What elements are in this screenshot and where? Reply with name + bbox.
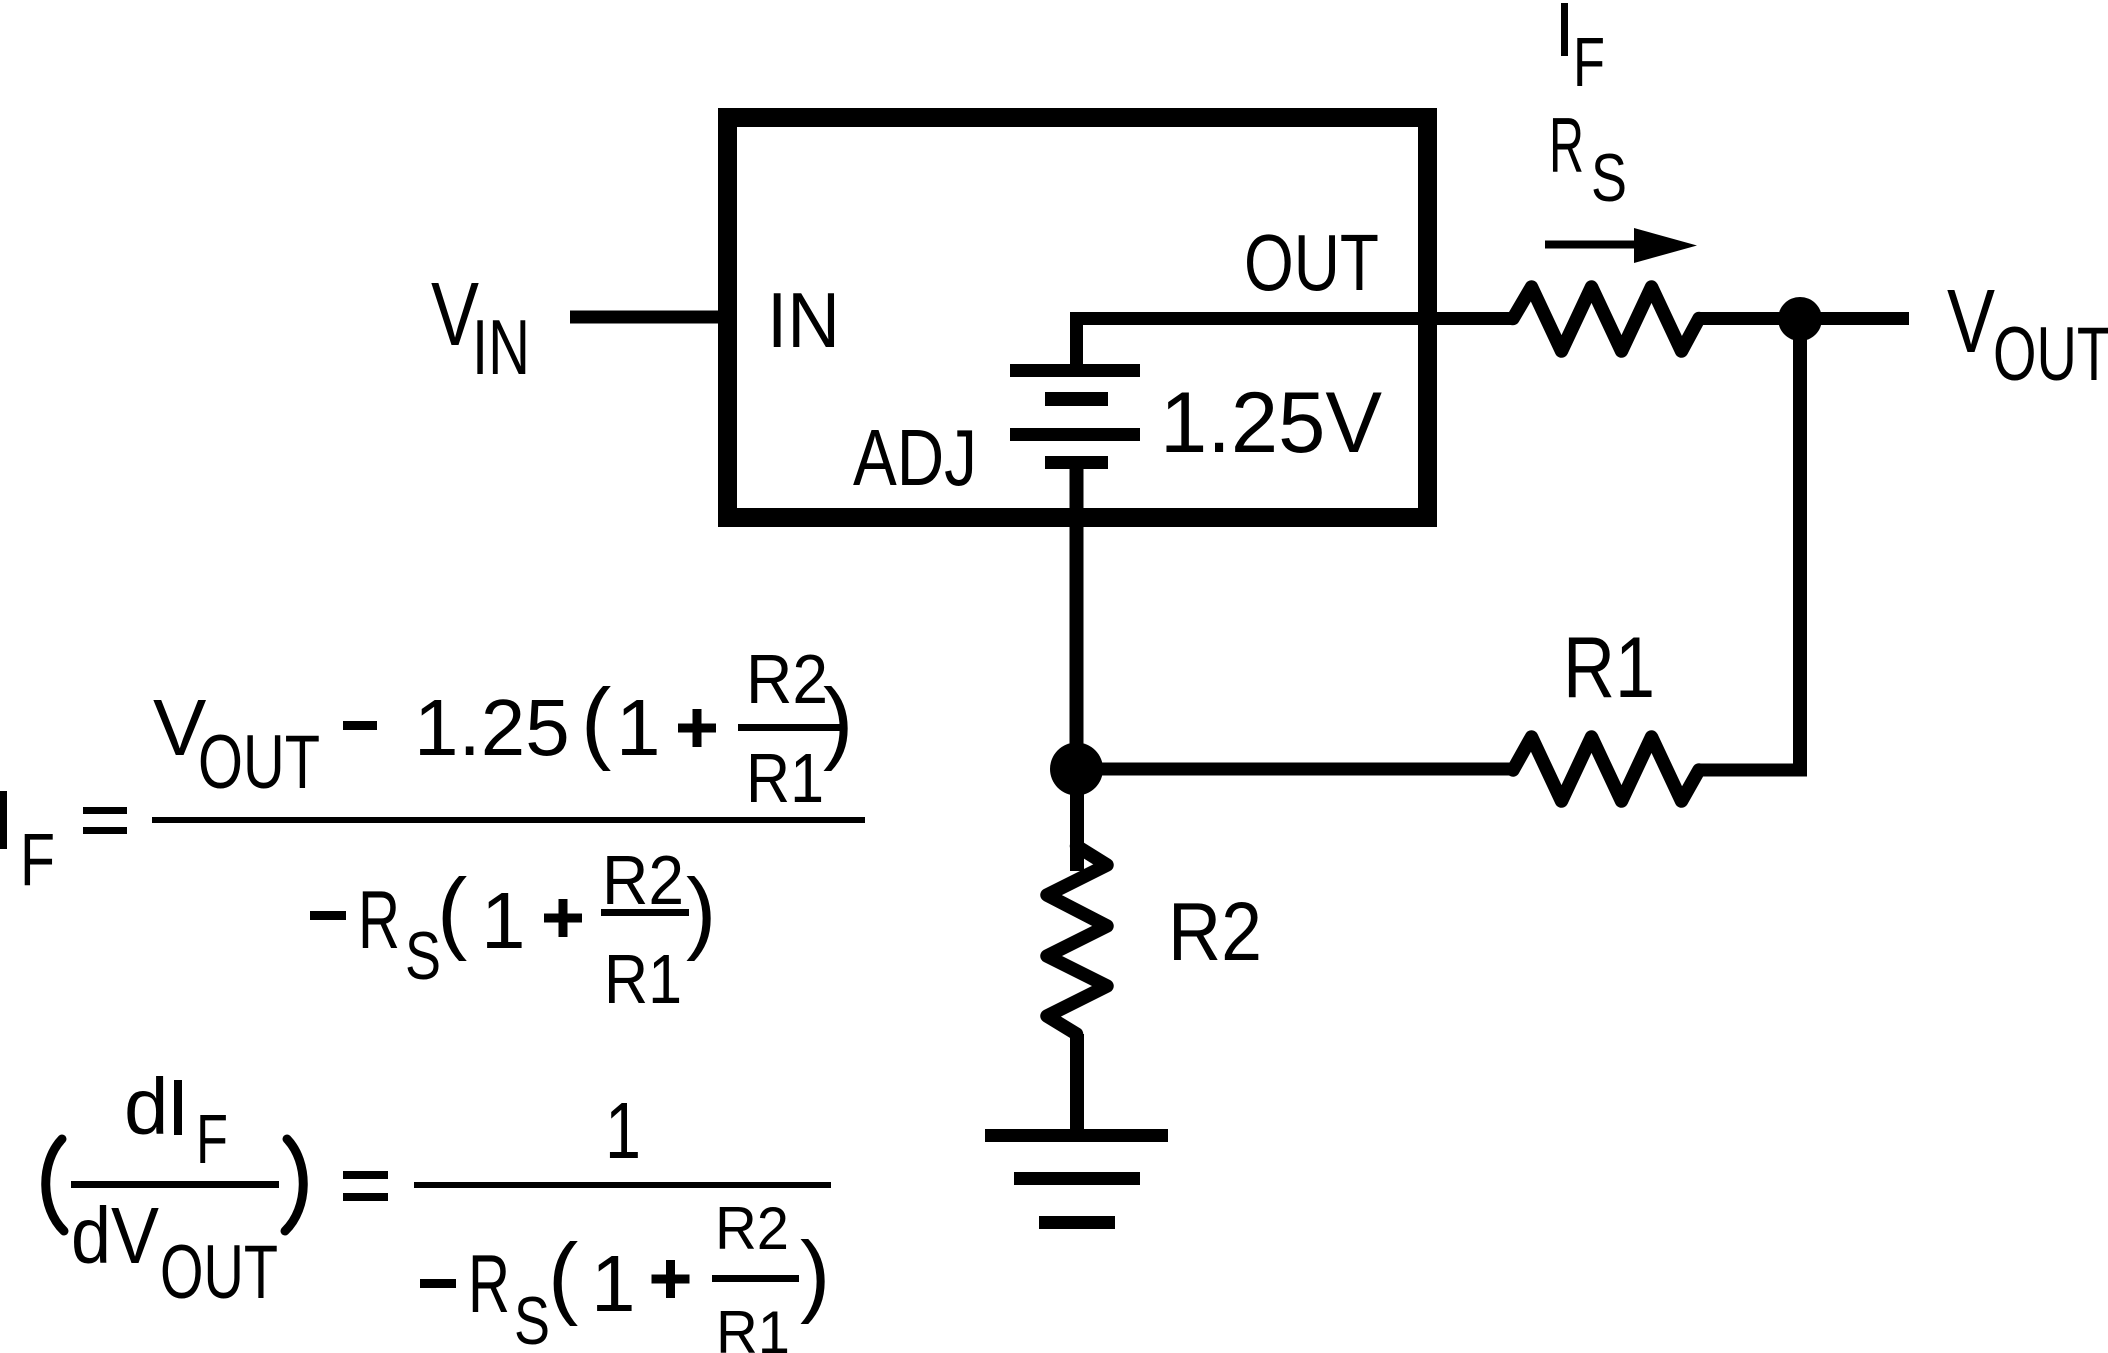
svg-text:R2: R2 bbox=[746, 640, 828, 718]
node A junction dot (ADJ) bbox=[1050, 743, 1103, 796]
svg-text:OUT: OUT bbox=[1244, 218, 1379, 307]
svg-text:dV: dV bbox=[71, 1191, 160, 1280]
svg-text:1: 1 bbox=[605, 1086, 641, 1175]
wire VIN to IN pin bbox=[570, 311, 720, 324]
equals bbox=[83, 807, 127, 814]
svg-text:F: F bbox=[196, 1100, 228, 1178]
wire ADJ lead from battery to node A bbox=[1070, 469, 1084, 769]
svg-text:1: 1 bbox=[591, 1239, 636, 1328]
svg-text:OUT: OUT bbox=[1993, 312, 2108, 397]
battery plate short bottom bbox=[1045, 456, 1108, 469]
wire VOUT node down to R1 bbox=[1793, 319, 1807, 770]
wire ADJ node to R1 left lead bbox=[1077, 763, 1513, 776]
svg-text:): ) bbox=[823, 671, 853, 772]
label IF current bbox=[1561, 3, 1568, 56]
svg-text:R2: R2 bbox=[1168, 885, 1262, 978]
svg-text:): ) bbox=[686, 861, 716, 962]
svg-text:ADJ: ADJ bbox=[853, 413, 977, 502]
resistor RS bbox=[1513, 287, 1699, 351]
svg-text:S: S bbox=[1591, 140, 1627, 216]
wire R2 to ground bbox=[1070, 1034, 1084, 1132]
svg-text:R1: R1 bbox=[1563, 620, 1655, 716]
svg-text:1: 1 bbox=[481, 876, 526, 965]
fraction bar bbox=[152, 817, 865, 823]
ground symbol bbox=[985, 1129, 1168, 1142]
big paren left bbox=[46, 1139, 64, 1231]
small fraction bar bbox=[71, 1181, 279, 1188]
svg-text:R: R bbox=[1549, 101, 1584, 189]
svg-text:S: S bbox=[514, 1283, 550, 1353]
equals bbox=[343, 1171, 388, 1179]
svg-text:R1: R1 bbox=[716, 1299, 790, 1353]
regulator U1 box bbox=[728, 118, 1428, 518]
svg-text:1.25: 1.25 bbox=[414, 683, 570, 772]
resistor R2 bbox=[1047, 846, 1107, 1034]
svg-text:): ) bbox=[800, 1224, 830, 1325]
node VOUT junction dot bbox=[1778, 297, 1822, 341]
svg-text:IN: IN bbox=[767, 276, 840, 364]
wire node A down to R2 bbox=[1070, 769, 1084, 871]
svg-text:V: V bbox=[1947, 272, 1995, 372]
svg-text:R: R bbox=[358, 873, 400, 966]
wire R1 right lead bbox=[1699, 764, 1807, 777]
svg-text:R2: R2 bbox=[602, 841, 684, 919]
svg-text:R2: R2 bbox=[715, 1195, 789, 1262]
svg-text:(: ( bbox=[437, 861, 467, 962]
current arrow IF bbox=[1545, 241, 1638, 249]
battery plate short bbox=[1045, 392, 1108, 406]
svg-text:OUT: OUT bbox=[198, 720, 320, 805]
denominator -RS(1 + R2/R1) bbox=[310, 911, 346, 920]
svg-text:IN: IN bbox=[472, 303, 530, 391]
svg-text:R1: R1 bbox=[746, 739, 824, 817]
battery plate long bbox=[1010, 428, 1140, 441]
big paren right bbox=[285, 1139, 303, 1231]
svg-text:S: S bbox=[405, 918, 441, 994]
node IF lhs bbox=[0, 791, 7, 849]
svg-text:R1: R1 bbox=[604, 940, 682, 1018]
svg-text:F: F bbox=[1573, 23, 1605, 101]
denominator -RS(1 + R2/R1) bbox=[420, 1279, 456, 1288]
svg-text:F: F bbox=[20, 818, 55, 901]
svg-text:R: R bbox=[468, 1237, 510, 1330]
resistor R1 bbox=[1513, 737, 1699, 801]
svg-text:OUT: OUT bbox=[160, 1230, 278, 1315]
svg-text:d: d bbox=[124, 1062, 169, 1151]
battery B1 1.25V plate long top bbox=[1010, 364, 1140, 377]
wire OUT pin from battery top corner through box edge bbox=[1077, 319, 1514, 365]
svg-text:1: 1 bbox=[616, 683, 661, 772]
wire RS to VOUT bbox=[1699, 312, 1909, 325]
svg-text:(: ( bbox=[548, 1226, 578, 1327]
svg-text:(: ( bbox=[581, 671, 611, 772]
svg-text:1.25V: 1.25V bbox=[1160, 375, 1382, 471]
fraction bar bbox=[414, 1182, 831, 1188]
